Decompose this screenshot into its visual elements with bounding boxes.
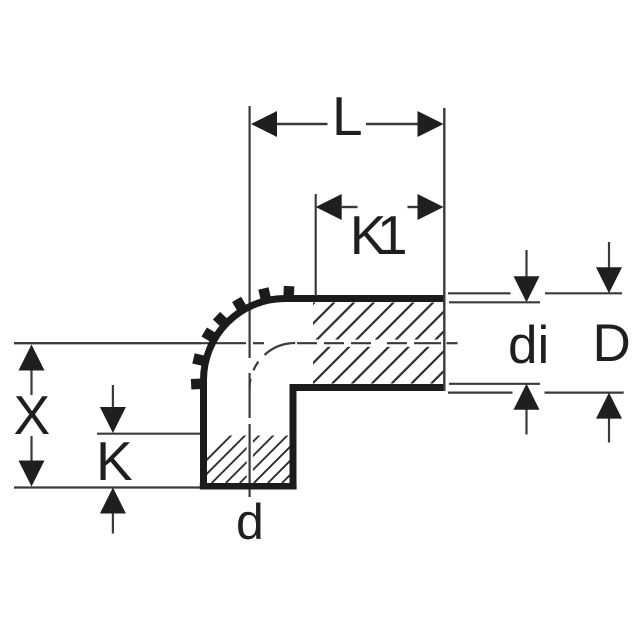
L dimension extension line right [443, 108, 445, 295]
K1 dimension line [342, 206, 418, 208]
X dimension top extension line [14, 342, 201, 344]
D arrow top [596, 267, 622, 293]
K arrow down [100, 407, 126, 433]
L arrow right [418, 111, 444, 137]
K arrow up [100, 488, 126, 514]
svg-text:L: L [332, 85, 363, 147]
X arrow up [19, 345, 45, 371]
inner corner: bottom edge of horizontal pipe and right wall of vertical pipe [293, 388, 445, 487]
K1 arrow left [316, 194, 342, 220]
K1 arrow right [418, 194, 444, 220]
X/K bottom extension line [14, 486, 200, 488]
centerline white casing horizontal [310, 340, 444, 347]
vertical pipe centerline [249, 106, 251, 497]
X dimension stems [30, 370, 32, 461]
D arrow stems [608, 242, 610, 443]
elbow outer outline: left wall, outer curve, top edge [204, 299, 445, 487]
D arrow bottom [596, 393, 622, 419]
hatch vertical pipe section [184, 435, 330, 483]
K dimension stems [112, 385, 114, 534]
X arrow down [19, 461, 45, 487]
K top extension line [97, 433, 200, 435]
svg-text:1: 1 [377, 204, 408, 266]
svg-text:d: d [236, 494, 264, 550]
di arrow bottom [514, 384, 540, 410]
hatch horizontal pipe section [233, 302, 513, 384]
bore flow arc (dashed quarter arc) [250, 343, 296, 389]
svg-text:X: X [14, 384, 51, 446]
di arrow stems [525, 250, 527, 435]
D reference line bottom [448, 392, 624, 394]
di reference line bottom [449, 383, 540, 385]
di reference line top [449, 301, 540, 303]
horizontal pipe centerline [14, 342, 458, 344]
di arrow top [514, 276, 540, 302]
D reference line top [448, 292, 622, 294]
vertical pipe bottom end face [200, 483, 297, 490]
K1 dimension extension line left [315, 194, 317, 296]
L dimension line [277, 123, 418, 125]
serration teeth on outer curve [191, 286, 289, 384]
horizontal pipe right end face [443, 295, 445, 391]
svg-text:D: D [593, 314, 631, 373]
centerline white casing vertical [247, 430, 253, 484]
L arrow left [251, 111, 277, 137]
svg-text:K: K [96, 430, 133, 492]
svg-text:di: di [508, 316, 549, 375]
